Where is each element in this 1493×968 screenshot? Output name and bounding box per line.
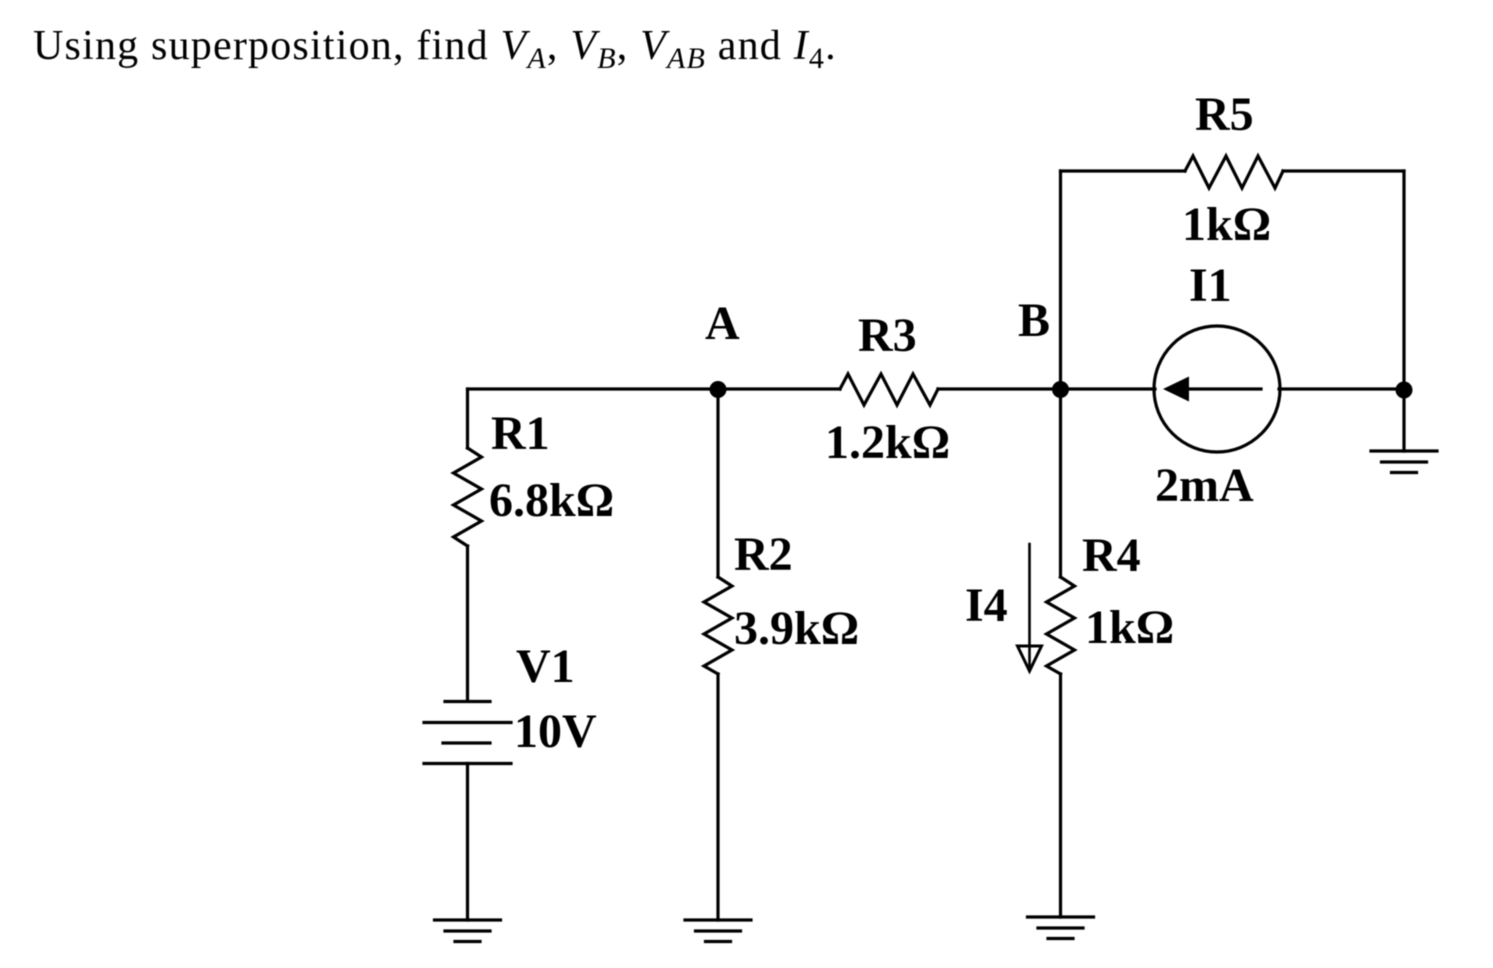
svg-text:R3: R3	[858, 309, 917, 362]
label 10V	[514, 705, 597, 758]
svg-text:R5: R5	[1195, 88, 1254, 141]
wire main horizontal left segment	[468, 387, 841, 390]
svg-text:A: A	[705, 297, 740, 350]
label R3	[858, 309, 917, 362]
label 6.8k	[489, 474, 614, 527]
svg-text:6.8kΩ: 6.8kΩ	[489, 474, 614, 527]
wire R1 to V1	[466, 546, 469, 701]
wire top left segment	[1061, 169, 1186, 172]
resistor R1	[454, 448, 482, 546]
ground under R2	[685, 920, 751, 942]
wire R4 to ground	[1059, 674, 1062, 917]
resistor R2	[704, 577, 732, 674]
label 2mA	[1155, 459, 1254, 512]
label 1k R5	[1182, 198, 1271, 251]
label I4	[965, 579, 1008, 632]
node A	[710, 381, 727, 398]
label 3.9k	[734, 602, 859, 655]
label R2	[734, 528, 793, 581]
svg-text:R2: R2	[734, 528, 793, 581]
label I1	[1189, 259, 1232, 312]
svg-text:V1: V1	[516, 640, 575, 693]
resistor R5	[1185, 156, 1283, 188]
wire R2 to ground	[716, 674, 719, 920]
svg-text:2mA: 2mA	[1155, 459, 1254, 512]
wire node B up to top	[1059, 171, 1062, 389]
battery V1	[424, 702, 511, 764]
svg-text:R4: R4	[1082, 529, 1141, 582]
title text	[33, 22, 837, 70]
wire node B down	[1059, 389, 1062, 577]
svg-text:1kΩ: 1kΩ	[1085, 601, 1174, 654]
label 1.2k	[825, 416, 950, 469]
label R4	[1082, 529, 1141, 582]
wire right branch	[1402, 171, 1405, 451]
svg-text:1.2kΩ: 1.2kΩ	[825, 416, 950, 469]
svg-text:B: B	[1018, 294, 1050, 347]
ground under R4	[1028, 917, 1094, 939]
label R1	[491, 407, 550, 460]
svg-text:I1: I1	[1189, 259, 1232, 312]
wire left branch upper	[466, 389, 469, 448]
node right	[1396, 382, 1413, 399]
svg-text:10V: 10V	[514, 705, 597, 758]
resistor R3	[840, 374, 938, 405]
current arrow I4	[1018, 544, 1042, 671]
svg-text:1kΩ: 1kΩ	[1182, 198, 1271, 251]
resistor R4	[1047, 577, 1075, 674]
ground under V1	[435, 920, 501, 942]
label V1	[516, 640, 575, 693]
node B	[1052, 381, 1069, 398]
svg-text:R1: R1	[491, 407, 550, 460]
current source I1	[1154, 326, 1280, 452]
wire V1 to ground	[466, 764, 469, 921]
label node B	[1018, 294, 1050, 347]
svg-text:I4: I4	[965, 579, 1008, 632]
label node A	[705, 297, 740, 350]
svg-text:3.9kΩ: 3.9kΩ	[734, 602, 859, 655]
wire top right segment	[1283, 169, 1404, 172]
label 1k R4	[1085, 601, 1174, 654]
label R5	[1195, 88, 1254, 141]
ground right	[1371, 451, 1437, 473]
wire main horizontal mid segment	[938, 387, 1155, 390]
wire node A down	[716, 389, 719, 577]
wire main horizontal right segment	[1279, 387, 1404, 390]
